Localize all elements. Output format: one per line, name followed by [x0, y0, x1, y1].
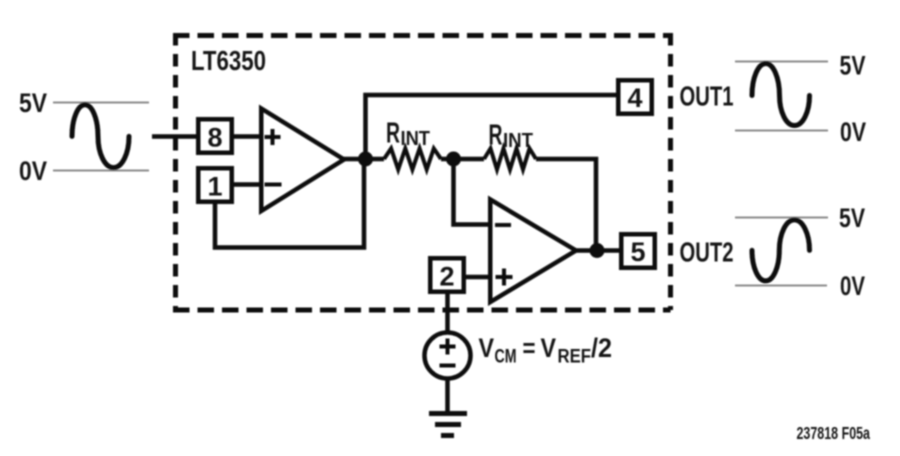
resistor RINT 2	[484, 149, 536, 170]
op-amp U1 minus sign	[265, 183, 282, 187]
wire U2 output to pin 5	[574, 248, 620, 253]
resistor RINT 1	[384, 149, 441, 170]
op-amp U2 plus sign	[496, 269, 513, 286]
svg-text:INT: INT	[503, 130, 533, 152]
voltage source VCM circle	[425, 333, 471, 379]
svg-text:5V: 5V	[839, 203, 865, 233]
OUT1 sine waveform	[752, 64, 810, 126]
OUT2 5V level line	[735, 217, 828, 219]
svg-text:CM: CM	[495, 347, 517, 368]
svg-text:R: R	[489, 120, 503, 152]
pin box 2	[430, 258, 464, 292]
svg-text:5V: 5V	[19, 88, 47, 118]
svg-text:=: =	[523, 333, 536, 363]
wire node B down to U2 - input	[454, 159, 491, 225]
wire pin 2 to U2 + input	[464, 275, 490, 280]
pin box 5	[621, 234, 655, 268]
input 0V level line	[53, 170, 149, 172]
svg-text:8: 8	[207, 123, 222, 153]
op-amp U1	[261, 109, 344, 212]
node B junction dot	[446, 152, 461, 167]
svg-text:5: 5	[630, 237, 645, 267]
input 5V level line	[53, 102, 149, 104]
feedback wire pin1 to node A	[215, 160, 364, 248]
svg-text:V: V	[541, 333, 557, 363]
voltage source minus sign	[440, 364, 456, 368]
op-amp U2 minus sign	[495, 223, 511, 227]
wire pin 8 to op-amp U1 + input	[234, 134, 261, 139]
ground symbol	[429, 414, 467, 436]
wire node A up to output rail	[366, 95, 617, 159]
svg-text:OUT1: OUT1	[680, 81, 734, 112]
svg-text:/2: /2	[591, 333, 612, 363]
wire U1 output to node A	[342, 157, 384, 162]
input sine waveform	[72, 105, 129, 168]
wire pin 1 to op-amp U1 - input	[234, 182, 261, 187]
svg-text:REF: REF	[558, 347, 592, 368]
wire pin 2 down to VCM source	[445, 292, 450, 334]
wire VCM source to ground	[445, 377, 450, 412]
svg-text:INT: INT	[401, 128, 431, 150]
pin box 8	[198, 119, 232, 153]
op-amp U2	[490, 200, 576, 303]
OUT1 5V level line	[735, 61, 828, 63]
pin box 1	[198, 168, 232, 202]
svg-text:2: 2	[439, 262, 454, 292]
svg-text:237818 F05a: 237818 F05a	[797, 423, 871, 443]
op-amp U1 plus sign	[265, 129, 281, 145]
OUT2 0V level line	[735, 285, 827, 287]
wire resistor1 to node B	[441, 157, 484, 162]
svg-text:LT6350: LT6350	[191, 45, 266, 76]
svg-text:0V: 0V	[19, 156, 47, 186]
pin box 4	[618, 80, 652, 114]
OUT2 sine waveform	[752, 220, 810, 281]
svg-text:0V: 0V	[840, 271, 865, 301]
svg-text:V: V	[479, 333, 495, 363]
node C junction dot	[590, 243, 605, 258]
svg-text:R: R	[386, 118, 400, 150]
wire resistor2 to U2 output node	[536, 159, 596, 250]
svg-text:OUT2: OUT2	[680, 237, 734, 268]
dashed boundary box LT6350	[173, 33, 671, 310]
svg-text:4: 4	[627, 83, 642, 113]
svg-text:1: 1	[207, 172, 222, 202]
svg-text:5V: 5V	[840, 51, 866, 81]
OUT1 0V level line	[735, 130, 828, 132]
svg-text:0V: 0V	[840, 117, 866, 147]
node A junction dot	[358, 152, 373, 167]
voltage source plus sign	[440, 339, 456, 355]
wire input to pin 8	[152, 134, 198, 139]
